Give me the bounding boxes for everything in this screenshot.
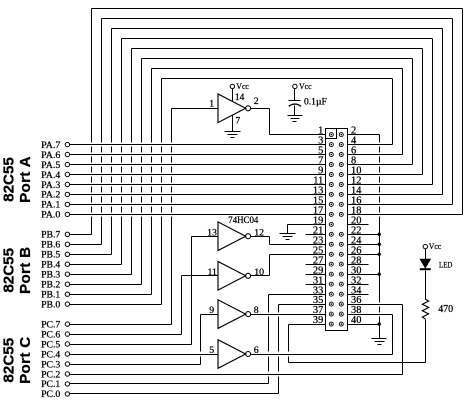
label pin 8 U1D	[254, 305, 259, 316]
svg-text:470: 470	[438, 304, 453, 315]
PC terminal labels and pins	[41, 319, 70, 400]
wire PB.3 loop to pin 10	[70, 49, 423, 275]
wire PC.3 to U1D input (pin 9)	[70, 315, 219, 365]
svg-text:Vcc: Vcc	[299, 81, 312, 91]
label 82C55 Port B	[1, 247, 34, 294]
wire PA.6 to pin 5	[70, 154, 326, 156]
svg-text:5: 5	[209, 345, 214, 356]
wire PA.5 to pin 7	[70, 164, 326, 166]
svg-text:39: 39	[313, 315, 323, 326]
wire pin 22 to ground bus	[348, 233, 381, 236]
stub pin 32	[348, 284, 369, 286]
LED D1	[420, 259, 453, 270]
wire pin 2 to ground bus	[348, 134, 380, 136]
inverter U1B (13-12)	[218, 222, 251, 251]
PA terminal labels and pins	[41, 140, 70, 221]
wire U1A output to pin 1	[251, 109, 326, 135]
wire U1E output to pin 38	[251, 315, 393, 355]
stub pin 21	[306, 234, 326, 236]
wire PC.0 to pin 35	[70, 305, 326, 394]
svg-text:Port B: Port B	[17, 247, 34, 294]
wire resistor to node	[425, 320, 427, 363]
label pin 5 U1E	[209, 345, 214, 356]
label pin 10 U1C	[254, 267, 264, 278]
label 82C55 Port C	[1, 337, 34, 384]
stub pin 34	[348, 294, 369, 296]
PB terminal labels and pins	[41, 230, 70, 311]
stub pin 27	[306, 264, 326, 266]
wire node pin39-pin36-resistor	[289, 362, 426, 364]
wire PC.4 to U1E input (pin 5)	[70, 354, 219, 356]
wire PC.6 to U1C input (pin 11)	[70, 276, 219, 335]
stub pin 20	[348, 224, 369, 226]
svg-text:13: 13	[207, 227, 217, 238]
svg-text:74HC04: 74HC04	[228, 215, 258, 225]
wire U1C output to pin 25	[251, 255, 326, 276]
label pin 2 U1A	[254, 96, 259, 107]
wire pin 39 riser	[289, 325, 326, 363]
wire pin 26 to ground bus	[348, 253, 381, 256]
svg-text:14: 14	[235, 93, 245, 103]
stub pin 31	[306, 284, 326, 286]
wire PA.3 to pin 11	[70, 184, 326, 186]
inverter U1D (9-8)	[218, 300, 251, 329]
svg-text:Port A: Port A	[17, 156, 34, 203]
label 74HC04	[228, 215, 258, 225]
resistor R1 470	[422, 299, 453, 319]
label pin 9 U1D	[209, 305, 214, 316]
wire PB.0 loop to pin 4	[70, 79, 393, 305]
stub pin 29	[306, 274, 326, 276]
svg-text:11: 11	[207, 267, 217, 278]
wire PA.1 to pin 15	[70, 204, 326, 206]
svg-text:PB.0: PB.0	[41, 299, 60, 310]
stub pin 28	[348, 264, 369, 266]
svg-text:9: 9	[209, 305, 214, 316]
wire PB.2 loop to pin 8	[70, 59, 413, 285]
op-amp style inverter U1A (74HC04 gate A)	[218, 94, 251, 123]
U1A Vcc pin 14	[230, 81, 249, 103]
wire pin 19 to ground	[288, 225, 326, 234]
svg-text:82C55: 82C55	[1, 157, 18, 202]
wire PB.4 loop to pin 12	[70, 39, 433, 265]
svg-text:LED: LED	[439, 260, 452, 270]
label pin 11 U1C	[207, 267, 217, 278]
connector J1 odd pin numbers	[313, 126, 323, 327]
wire LED to resistor	[425, 271, 427, 300]
wire pin 40 to ground bus	[348, 322, 381, 325]
U1A ground pin 7	[225, 115, 241, 138]
svg-text:Vcc: Vcc	[429, 241, 442, 251]
capacitor C1 ground	[288, 116, 303, 122]
wire PC.1 to pin 33	[70, 295, 326, 384]
svg-text:7: 7	[235, 115, 240, 126]
capacitor C1 0.1uF with Vcc	[289, 81, 327, 116]
wire pin 30 to ground bus	[348, 273, 381, 276]
connector J1 pin holes	[329, 133, 343, 327]
connector J1 even pin numbers	[351, 126, 362, 327]
label pin 1 U1A	[209, 99, 214, 110]
svg-text:Vcc: Vcc	[236, 81, 249, 91]
svg-text:40: 40	[351, 315, 361, 326]
wire PC.7 to U1A input (pin 1)	[70, 109, 219, 325]
svg-text:PA.0: PA.0	[41, 210, 60, 221]
Vcc for LED	[423, 241, 441, 260]
ground at pin 19	[280, 234, 296, 240]
svg-text:1: 1	[209, 99, 214, 110]
wire PB.1 loop to pin 6	[70, 69, 403, 295]
svg-text:0.1µF: 0.1µF	[304, 98, 327, 108]
wire PB.5 loop to pin 14	[70, 29, 443, 255]
wire PB.7 loop to pin 18	[70, 9, 463, 235]
wire PA.2 to pin 13	[70, 194, 326, 196]
wire PA.4 to pin 9	[70, 174, 326, 176]
wire pin 24 to ground bus	[348, 243, 381, 246]
label pin 12 U1B	[254, 227, 264, 238]
svg-text:82C55: 82C55	[1, 337, 18, 382]
svg-text:82C55: 82C55	[1, 247, 18, 292]
inverter U1E (5-6)	[218, 340, 251, 369]
svg-text:PC.0: PC.0	[41, 389, 60, 400]
ground at pin 40 bus	[372, 339, 387, 345]
wire U1B output to pin 23	[251, 237, 326, 245]
label pin 13 U1B	[207, 227, 217, 238]
wire PB.6 loop to pin 16	[70, 19, 453, 245]
wire PC.5 to U1B input (pin 13)	[70, 237, 219, 345]
wire pin 36 riser	[348, 305, 403, 363]
inverter U1C (11-10)	[218, 262, 251, 291]
connector J1 pin 1 square	[326, 129, 337, 139]
wire PA.7 to pin 3	[70, 144, 326, 146]
wire PC.2 to pin36/pin39/resistor node	[70, 363, 403, 375]
svg-text:10: 10	[254, 267, 264, 278]
ground bus vertical	[379, 135, 381, 339]
label pin 6 U1E	[254, 345, 259, 356]
connector J1 body	[326, 129, 348, 331]
svg-text:2: 2	[254, 96, 259, 107]
svg-text:Port C: Port C	[17, 337, 34, 384]
wire PA.0 to pin 17	[70, 214, 326, 216]
wire U1D output to pin 37	[251, 314, 326, 316]
label 82C55 Port A	[1, 156, 34, 203]
